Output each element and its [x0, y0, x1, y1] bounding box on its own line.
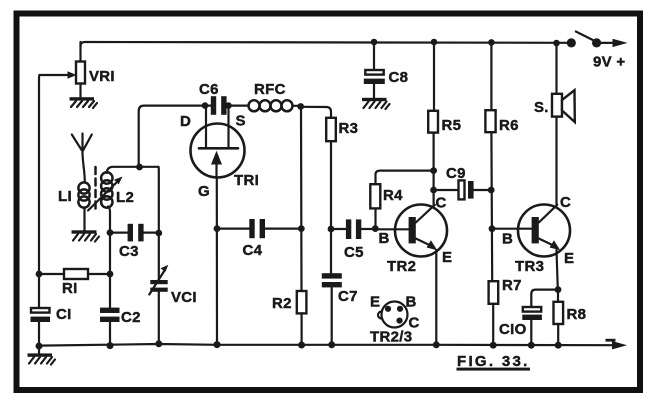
capacitor C9: [434, 165, 492, 199]
svg-text:LI: LI: [58, 188, 72, 205]
junction RFC right: [297, 103, 304, 110]
svg-text:R6: R6: [499, 117, 519, 134]
svg-text:TR2: TR2: [387, 258, 416, 275]
svg-text:FIG. 33.: FIG. 33.: [457, 353, 530, 370]
resistor R8: [554, 290, 587, 346]
capacitor C10: [499, 307, 542, 345]
svg-text:B: B: [502, 231, 513, 248]
svg-text:C9: C9: [446, 165, 466, 182]
svg-text:R7: R7: [502, 277, 522, 294]
wire node to C10: [531, 290, 558, 307]
antenna: [72, 134, 92, 183]
resistor R2: [272, 291, 306, 345]
wire top supply rail: [81, 42, 567, 46]
battery minus arrow: [606, 339, 628, 350]
resistor R6: [485, 42, 518, 281]
capacitor C7: [322, 273, 358, 344]
svg-text:R8: R8: [567, 306, 587, 323]
svg-text:CI: CI: [56, 306, 72, 323]
resistor R3: [326, 118, 358, 273]
wire TR3 emitter down: [557, 250, 558, 290]
svg-text:B: B: [406, 294, 417, 311]
junction TR3 emitter node: [555, 286, 562, 293]
coil core dashed line: [94, 167, 97, 209]
choke RFC: [249, 81, 301, 111]
junction dots middle: [107, 229, 114, 236]
svg-text:E: E: [442, 249, 452, 266]
junction dots bottom bus: [36, 343, 43, 350]
svg-text:C5: C5: [344, 244, 364, 261]
capacitor C6: [199, 81, 249, 115]
svg-text:VRI: VRI: [89, 68, 115, 85]
svg-text:S.: S.: [534, 99, 549, 116]
variable coupling arrow: [88, 177, 123, 211]
svg-text:RFC: RFC: [254, 81, 286, 98]
wire VR1 wiper to left rail down: [38, 75, 41, 308]
svg-text:R4: R4: [383, 187, 403, 204]
transistor TR2: [375, 195, 452, 276]
capacitor C5: [331, 219, 375, 261]
svg-text:D: D: [180, 113, 191, 130]
ground under C8: [362, 98, 390, 109]
ground under VR1: [70, 97, 98, 108]
svg-text:C: C: [560, 194, 571, 211]
wire node right down VC1 line: [157, 167, 160, 280]
svg-text:C6: C6: [199, 81, 219, 98]
ground under L1: [72, 230, 100, 241]
svg-text:S: S: [236, 113, 246, 130]
svg-text:L2: L2: [116, 189, 134, 206]
svg-text:VCI: VCI: [171, 289, 197, 306]
caption FIG. 33.: [457, 353, 531, 371]
svg-text:R5: R5: [442, 117, 462, 134]
wire TR2 emitter down: [435, 250, 437, 345]
speaker S: [534, 43, 575, 205]
svg-text:C4: C4: [243, 242, 263, 259]
svg-text:C2: C2: [121, 309, 141, 326]
coil L2: [101, 172, 134, 307]
wire TR1 gate down: [216, 178, 218, 345]
node junction L2/top: [136, 164, 143, 171]
wire RFC node right to R3: [301, 107, 331, 118]
svg-text:R2: R2: [272, 295, 292, 312]
svg-text:9V +: 9V +: [593, 54, 625, 71]
svg-text:RI: RI: [62, 280, 78, 297]
resistor R1: [39, 269, 110, 297]
coil L1: [58, 182, 90, 231]
resistor R4: [370, 171, 433, 229]
junction dots C6: [202, 102, 209, 109]
potentiometer VR1: [40, 42, 115, 98]
svg-text:TR3: TR3: [515, 258, 544, 275]
svg-text:R3: R3: [339, 120, 359, 137]
transistor TR3: [492, 194, 574, 275]
wire RFC down through C4 to R2: [300, 107, 303, 292]
switch S1: [567, 32, 628, 48]
resistor R5: [428, 42, 461, 205]
transistor pinout TR2/3: [370, 294, 420, 346]
capacitor C2: [100, 308, 141, 346]
svg-text:B: B: [379, 230, 390, 247]
wire L2 top to node: [107, 167, 159, 173]
capacitor C3: [110, 224, 159, 260]
svg-text:E: E: [564, 250, 574, 267]
svg-text:TRI: TRI: [234, 172, 259, 189]
svg-text:TR2/3: TR2/3: [370, 329, 412, 346]
svg-text:C8: C8: [389, 69, 409, 86]
variable capacitor VC1: [149, 265, 197, 344]
wire node up to C6: [139, 106, 211, 167]
junction dots top rail: [371, 39, 378, 46]
bottom ground bus: [39, 344, 612, 346]
svg-text:G: G: [198, 183, 210, 200]
svg-text:C7: C7: [338, 288, 358, 305]
capacitor C1: [31, 306, 72, 346]
ground at bus left: [28, 346, 56, 365]
FET TR1: [180, 106, 259, 200]
svg-text:E: E: [370, 294, 380, 311]
svg-text:CIO: CIO: [499, 321, 527, 338]
capacitor C4: [217, 219, 301, 259]
capacitor C8: [364, 42, 408, 98]
svg-text:C: C: [436, 195, 447, 212]
resistor R7: [489, 277, 522, 345]
svg-text:C3: C3: [119, 243, 139, 260]
